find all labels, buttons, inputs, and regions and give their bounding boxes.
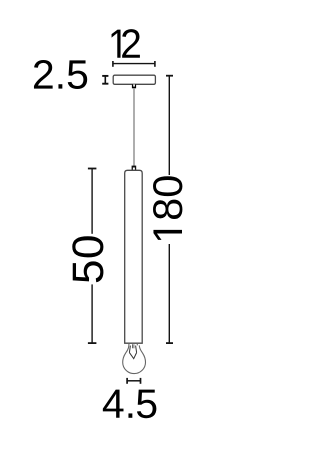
dimension text 2.5: [34, 60, 87, 89]
halo for text 50: [71, 234, 105, 285]
tube lamp body: [125, 170, 143, 343]
dimension line 50 (tube length): [88, 169, 97, 344]
dimension text 180 (rotated): [153, 176, 182, 240]
bulb filament: [129, 346, 136, 359]
ceiling canopy plate: [113, 75, 155, 84]
dimension line 12 (canopy width): [113, 61, 155, 67]
dimension line 4.5 (tube diameter): [127, 378, 140, 384]
bulb stem: [133, 344, 134, 348]
bulb neck: [129, 343, 137, 346]
cord grip connector on tube top: [132, 166, 137, 171]
dimension I-beam 2.5 (canopy thickness): [102, 75, 108, 84]
halo for text 180: [151, 175, 184, 244]
dimension text 50 (rotated): [72, 236, 103, 282]
suspension cable: [133, 88, 135, 166]
dimension text 12: [112, 29, 140, 58]
strain relief nub below plate: [132, 84, 136, 88]
dimension line 180 (overall drop): [166, 76, 173, 343]
bulb glass: [123, 345, 146, 373]
dimension text 4.5: [103, 390, 157, 419]
